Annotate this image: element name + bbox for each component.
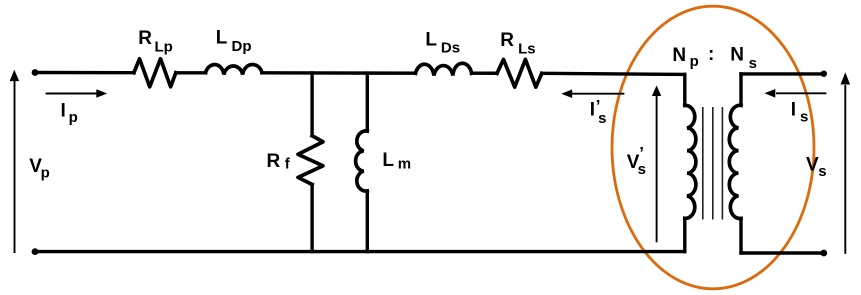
svg-text:s: s (818, 163, 826, 180)
svg-text:Dp: Dp (232, 38, 252, 55)
svg-text:Lp: Lp (155, 39, 173, 56)
svg-text:m: m (398, 156, 411, 173)
svg-text:I: I (61, 100, 66, 121)
svg-text:s: s (749, 55, 757, 72)
svg-text:f: f (285, 156, 291, 173)
svg-text:Ds: Ds (441, 40, 460, 57)
svg-text:V: V (806, 155, 819, 176)
svg-text:L: L (216, 27, 228, 48)
svg-text:p: p (690, 53, 699, 70)
svg-text:Ls: Ls (518, 41, 536, 58)
svg-text:s: s (638, 161, 646, 178)
svg-text:p: p (69, 109, 78, 126)
svg-text:p: p (41, 164, 50, 181)
svg-text:’: ’ (596, 96, 601, 115)
svg-text:R: R (500, 30, 514, 51)
svg-text:R: R (138, 28, 152, 49)
svg-text:N: N (672, 45, 686, 66)
svg-text:N: N (730, 45, 744, 66)
svg-text:s: s (800, 109, 808, 126)
svg-text:’: ’ (639, 144, 644, 163)
svg-text:I: I (791, 100, 796, 121)
svg-text:R: R (267, 151, 281, 172)
svg-text:L: L (425, 29, 437, 50)
svg-text:L: L (382, 150, 394, 171)
svg-text:I: I (590, 100, 595, 121)
svg-text::: : (708, 44, 714, 65)
